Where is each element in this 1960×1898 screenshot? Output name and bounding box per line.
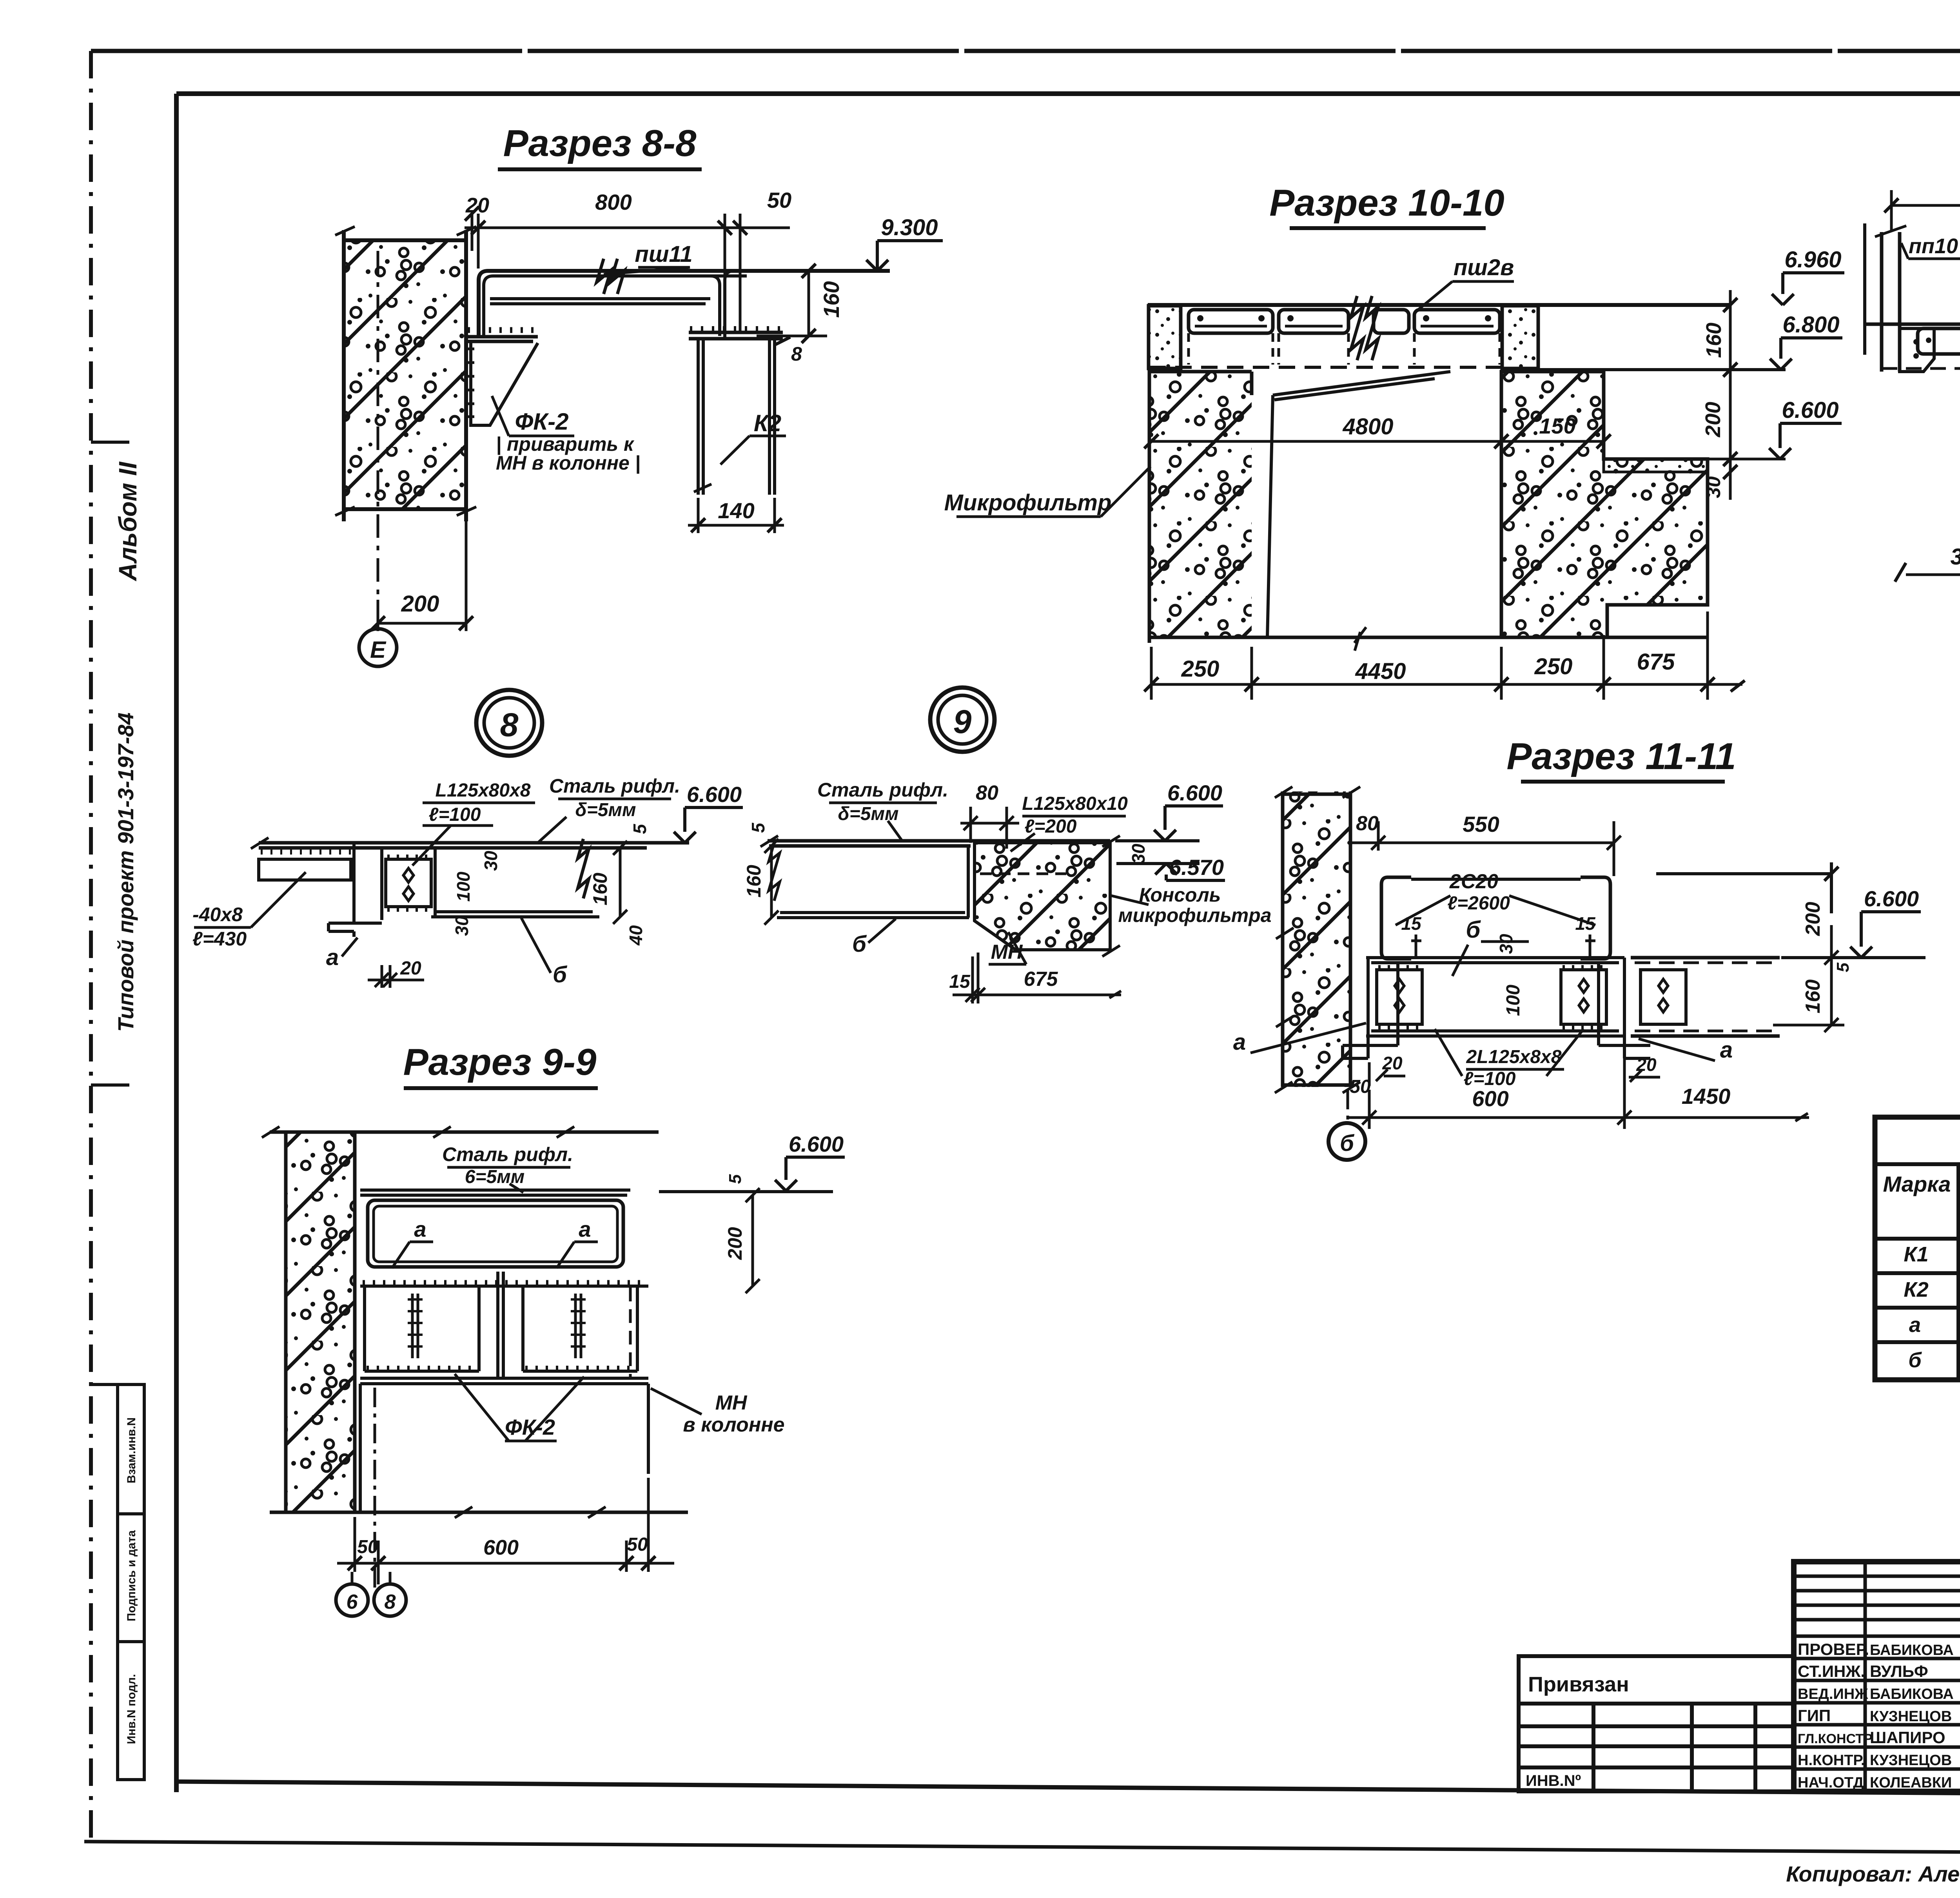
- bottom dims 50 600 50: [337, 1478, 674, 1584]
- svg-text:30: 30: [1128, 844, 1149, 864]
- svg-text:5: 5: [1833, 962, 1853, 972]
- signature labels: [1798, 1640, 1954, 1791]
- svg-text:пп10: пп10: [1909, 234, 1958, 258]
- svg-text:80: 80: [976, 782, 998, 804]
- svg-text:К2: К2: [754, 410, 781, 436]
- svg-text:МН в колонне |: МН в колонне |: [496, 452, 641, 474]
- svg-text:6.600: 6.600: [1167, 780, 1222, 805]
- svg-text:Разрез 8-8: Разрез 8-8: [503, 122, 697, 164]
- console concrete: [975, 843, 1110, 950]
- svg-text:550: 550: [1463, 812, 1499, 836]
- concrete wall: [1284, 791, 1349, 1087]
- beam b flanges: [431, 848, 599, 917]
- svg-text:а: а: [1233, 1029, 1246, 1055]
- svg-text:К2: К2: [1904, 1278, 1928, 1301]
- channel box section a-a: [368, 1200, 623, 1267]
- dim 160 right of beam: [757, 271, 827, 336]
- svg-text:6.600: 6.600: [1864, 886, 1919, 911]
- svg-text:160: 160: [743, 865, 765, 898]
- frame top line: [176, 91, 1960, 96]
- svg-text:КУЗНЕЦОВ: КУЗНЕЦОВ: [1870, 1752, 1952, 1769]
- svg-text:50: 50: [357, 1537, 378, 1557]
- svg-text:СТ.ИНЖ.: СТ.ИНЖ.: [1798, 1662, 1865, 1680]
- bottom plate: [360, 1378, 648, 1384]
- svg-text:50: 50: [627, 1534, 648, 1555]
- rail top line: [1865, 323, 1960, 326]
- axis line and circle b: [1347, 1090, 1349, 1123]
- deck top line: [1148, 303, 1730, 307]
- channel a cross-section: [328, 844, 382, 937]
- svg-text:Разрез 10-10: Разрез 10-10: [1269, 182, 1504, 224]
- beam stub FK-2 left: [365, 1286, 479, 1371]
- axis line E: [377, 251, 379, 627]
- column web between stubs: [498, 1272, 503, 1380]
- svg-text:КОЛЕАВКИ: КОЛЕАВКИ: [1870, 1775, 1952, 1791]
- svg-text:Разрез 11-11: Разрез 11-11: [1506, 735, 1736, 777]
- dim 200: [378, 521, 466, 631]
- right pier concrete: [1501, 372, 1708, 637]
- svg-text:Привязан: Привязан: [1528, 1673, 1629, 1696]
- svg-text:НАЧ.ОТД: НАЧ.ОТД: [1798, 1775, 1864, 1791]
- fold mark ticks on left margin: [91, 442, 129, 1384]
- svg-text:а: а: [579, 1217, 591, 1241]
- svg-text:микрофильтра: микрофильтра: [1118, 904, 1271, 926]
- svg-text:Инв.N подл.: Инв.N подл.: [125, 1674, 138, 1744]
- bottom dim 3000 1100 3000: [1906, 573, 1960, 576]
- table of elements outer border: [1875, 1117, 1960, 1380]
- svg-text:К1: К1: [1904, 1243, 1928, 1266]
- column edges below: [360, 1384, 648, 1512]
- svg-text:20: 20: [465, 194, 489, 217]
- axis circles 6 and 8: [352, 1572, 390, 1584]
- svg-text:6.570: 6.570: [1169, 855, 1224, 880]
- svg-text:5: 5: [726, 1174, 745, 1184]
- svg-text:КУЗНЕЦОВ: КУЗНЕЦОВ: [1870, 1708, 1952, 1725]
- svg-text:Подпись и дата: Подпись и дата: [125, 1530, 138, 1621]
- hidden flange dashed line: [1149, 366, 1501, 369]
- beam break symbol: [597, 259, 624, 294]
- beam assembly top/bottom: [1366, 958, 1624, 1036]
- post PP10 no.1: [1875, 226, 1934, 372]
- svg-text:160: 160: [589, 873, 611, 905]
- node circle 8: [476, 690, 542, 756]
- svg-text:50: 50: [1350, 1076, 1371, 1097]
- left sheet dash-dot vertical: [89, 51, 93, 1842]
- svg-text:пш11: пш11: [635, 241, 692, 267]
- svg-text:Копировал: Алешникова: Копировал: Алешникова: [1786, 1862, 1960, 1886]
- channel a right: [1599, 958, 1650, 1058]
- concrete wall hatched: [345, 240, 465, 509]
- svg-text:2С20: 2С20: [1449, 870, 1498, 893]
- svg-text:Сталь рифл.: Сталь рифл.: [549, 775, 680, 797]
- left frame vertical: [174, 94, 179, 1792]
- left columns: [1794, 1562, 1960, 1791]
- channel sections row: [1189, 310, 1500, 333]
- svg-text:ГИП: ГИП: [1798, 1706, 1831, 1725]
- dim 4800: [1151, 440, 1501, 443]
- rail hidden dashed line: [1882, 367, 1960, 370]
- svg-text:Альбом II: Альбом II: [114, 461, 142, 582]
- svg-text:ℓ=430: ℓ=430: [192, 928, 247, 950]
- top dim line 600 850 600: [1891, 204, 1960, 207]
- hidden beam b right (dashed): [1631, 958, 1780, 1036]
- svg-text:δ=5мм: δ=5мм: [575, 800, 636, 820]
- svg-text:250: 250: [1181, 656, 1220, 682]
- svg-text:Типовой проект 901-3-197-84: Типовой проект 901-3-197-84: [113, 713, 138, 1032]
- svg-text:а: а: [1909, 1313, 1921, 1337]
- svg-text:50: 50: [767, 188, 791, 212]
- svg-text:20: 20: [400, 958, 421, 979]
- svg-text:ШАПИРО: ШАПИРО: [1870, 1728, 1945, 1747]
- privyazan block: [1519, 1656, 1794, 1791]
- svg-text:6: 6: [347, 1591, 358, 1613]
- svg-text:Разрез 9-9: Разрез 9-9: [403, 1041, 597, 1083]
- axis circle E: [359, 629, 397, 666]
- right end block: [1502, 306, 1538, 368]
- bolted plate right: [1561, 970, 1606, 1024]
- deck plate lines: [259, 843, 689, 848]
- svg-text:160: 160: [819, 281, 844, 318]
- svg-text:9.300: 9.300: [881, 215, 938, 240]
- svg-text:200: 200: [401, 591, 439, 617]
- svg-text:600: 600: [483, 1536, 519, 1559]
- svg-text:а: а: [326, 945, 339, 970]
- svg-text:Н.КОНТР.: Н.КОНТР.: [1798, 1752, 1865, 1769]
- bolted plate joint: [386, 859, 431, 907]
- svg-text:800: 800: [595, 190, 632, 214]
- svg-text:160: 160: [1702, 323, 1726, 358]
- column K2 flanges: [698, 339, 775, 495]
- top right ref line and dims: [1656, 862, 1831, 913]
- top line with breaks: [270, 1130, 659, 1134]
- svg-text:4450: 4450: [1355, 659, 1406, 684]
- ground line: [1149, 636, 1708, 639]
- dim line 20 800 50: [465, 227, 790, 229]
- svg-text:ℓ=2600: ℓ=2600: [1447, 893, 1510, 914]
- svg-text:-40х8: -40х8: [192, 904, 243, 925]
- left end block: [1149, 306, 1181, 368]
- svg-text:15: 15: [1575, 913, 1596, 934]
- svg-text:40: 40: [626, 925, 646, 946]
- concrete wall: [287, 1132, 353, 1512]
- svg-text:6.600: 6.600: [687, 782, 742, 807]
- svg-text:140: 140: [718, 498, 754, 523]
- svg-text:БАБИКОВА: БАБИКОВА: [1870, 1642, 1954, 1658]
- svg-text:80: 80: [1356, 812, 1379, 835]
- svg-text:МН: МН: [715, 1392, 748, 1414]
- svg-text:8: 8: [500, 706, 519, 743]
- dim column 160/200/30: [1729, 290, 1732, 500]
- dashed webs below channels: [1189, 333, 1500, 365]
- svg-text:ГЛ.КОНСТР: ГЛ.КОНСТР: [1798, 1731, 1873, 1746]
- svg-text:8: 8: [385, 1591, 396, 1613]
- svg-text:30: 30: [481, 851, 501, 871]
- svg-text:пш2в: пш2в: [1454, 255, 1514, 280]
- deck lines: [360, 1190, 766, 1195]
- screed dotted band: [1604, 459, 1708, 472]
- svg-text:Консоль: Консоль: [1139, 884, 1221, 906]
- bolted plate left: [1377, 970, 1422, 1024]
- svg-text:Сталь рифл.: Сталь рифл.: [817, 779, 948, 801]
- svg-text:б: б: [1466, 916, 1481, 943]
- svg-text:б: б: [1908, 1348, 1922, 1372]
- svg-text:6.600: 6.600: [1782, 397, 1838, 423]
- svg-text:6=5мм: 6=5мм: [465, 1167, 524, 1187]
- svg-text:675: 675: [1024, 968, 1058, 991]
- svg-text:ВЕД.ИНЖ: ВЕД.ИНЖ: [1798, 1686, 1868, 1702]
- svg-text:L125х80х8: L125х80х8: [436, 780, 531, 801]
- sheet outer bottom edge: [84, 1842, 1960, 1852]
- svg-text:6.600: 6.600: [789, 1132, 844, 1156]
- svg-text:30: 30: [452, 916, 472, 936]
- svg-text:ВУЛЬФ: ВУЛЬФ: [1870, 1662, 1928, 1680]
- svg-text:6.800: 6.800: [1782, 312, 1839, 338]
- weld line under box: [360, 1285, 648, 1288]
- svg-text:L125х80х10: L125х80х10: [1022, 793, 1128, 814]
- svg-text:ПРОВЕР.: ПРОВЕР.: [1798, 1640, 1869, 1658]
- 2C20 channel frame: [1381, 877, 1411, 959]
- svg-text:б: б: [852, 931, 867, 957]
- svg-text:а: а: [414, 1217, 426, 1241]
- svg-text:600: 600: [1472, 1086, 1508, 1111]
- svg-text:Марка: Марка: [1883, 1172, 1951, 1196]
- svg-text:БАБИКОВА: БАБИКОВА: [1870, 1686, 1954, 1702]
- svg-text:ИНВ.Nº: ИНВ.Nº: [1526, 1772, 1581, 1789]
- left margin stamp column: [118, 1384, 144, 1780]
- svg-text:200: 200: [1701, 402, 1725, 437]
- svg-text:8: 8: [791, 343, 802, 365]
- svg-text:200: 200: [724, 1227, 746, 1260]
- column K2 top plate with weld ticks: [689, 332, 783, 339]
- svg-text:Микрофильтр: Микрофильтр: [944, 490, 1112, 515]
- svg-text:5: 5: [748, 822, 768, 833]
- frame bottom line: [176, 1782, 1960, 1797]
- svg-text:а: а: [1720, 1037, 1733, 1063]
- svg-text:4800: 4800: [1342, 414, 1393, 439]
- svg-text:250: 250: [1534, 654, 1573, 679]
- main block outer: [1794, 1562, 1960, 1791]
- svg-text:б: б: [1340, 1130, 1355, 1156]
- beam stub FK-2 right: [523, 1286, 637, 1371]
- svg-text:ℓ=100: ℓ=100: [429, 804, 481, 825]
- svg-text:5: 5: [630, 824, 650, 834]
- ground line: [270, 1511, 688, 1514]
- beam PSh11 channel profile: [479, 271, 890, 338]
- flat bar -40x8: [259, 859, 351, 880]
- svg-text:100: 100: [453, 871, 474, 902]
- bracket FK-2 on wall: [466, 337, 538, 341]
- svg-text:675: 675: [1637, 649, 1675, 675]
- node circle 9: [930, 688, 995, 752]
- channel a left: [1343, 958, 1398, 1058]
- rail channel sections: [1918, 328, 1960, 354]
- band break symbol: [1351, 296, 1378, 360]
- svg-text:Е: Е: [370, 637, 387, 663]
- svg-text:200: 200: [1802, 902, 1824, 936]
- table grid: [1875, 1164, 1960, 1380]
- svg-text:1450: 1450: [1682, 1084, 1731, 1109]
- svg-text:ФК-2: ФК-2: [515, 408, 568, 435]
- svg-text:15: 15: [949, 971, 971, 992]
- dim 140 under column: [688, 498, 784, 533]
- svg-text:9: 9: [953, 703, 972, 740]
- opening face line: [1267, 372, 1450, 637]
- svg-text:б: б: [553, 962, 568, 987]
- svg-text:в колонне: в колонне: [683, 1414, 784, 1436]
- svg-text:100: 100: [1503, 985, 1524, 1016]
- svg-text:3000: 3000: [1950, 544, 1960, 570]
- svg-text:Взам.инв.N: Взам.инв.N: [125, 1417, 138, 1483]
- sheet outer top line: [91, 49, 1960, 53]
- svg-text:15: 15: [1401, 913, 1422, 934]
- beam b: [777, 846, 969, 918]
- dim 150: [1501, 440, 1604, 443]
- svg-text:6.960: 6.960: [1784, 247, 1841, 272]
- svg-text:30: 30: [1496, 934, 1516, 954]
- bottom dims 250 4450 250 675: [1151, 683, 1742, 686]
- svg-text:Сталь рифл.: Сталь рифл.: [442, 1143, 573, 1165]
- svg-text:160: 160: [1802, 980, 1824, 1014]
- deck plate: [768, 841, 1110, 846]
- svg-text:2L125х8х8: 2L125х8х8: [1466, 1047, 1562, 1067]
- left pier concrete: [1149, 372, 1252, 637]
- svg-text:150: 150: [1539, 414, 1575, 438]
